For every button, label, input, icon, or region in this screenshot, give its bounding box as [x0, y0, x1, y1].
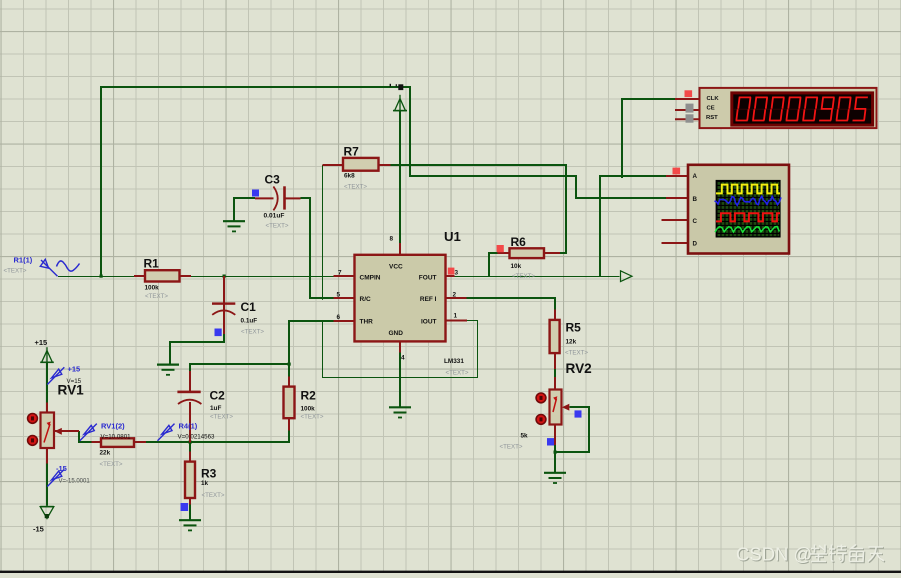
potentiometer RV2 [550, 390, 562, 425]
svg-text:FOUT: FOUT [419, 274, 437, 281]
indicator square at RV2 bottom [547, 438, 554, 445]
wire R7 left vertical [322, 165, 324, 300]
counter CLK stub [675, 98, 700, 100]
svg-text:B: B [693, 196, 698, 203]
U1 pin 4 stub [399, 342, 401, 353]
bottom black bar [0, 571, 901, 573]
svg-text:0.1uF: 0.1uF [241, 318, 258, 325]
svg-text:<TEXT>: <TEXT> [266, 223, 289, 230]
svg-text:100k: 100k [301, 406, 316, 413]
R7 right lead [378, 164, 391, 166]
svg-text:A: A [693, 173, 698, 180]
svg-text:<TEXT>: <TEXT> [301, 414, 324, 421]
svg-text:1k: 1k [201, 480, 209, 487]
counter digits 00000905 [736, 97, 750, 120]
svg-text:V=-15.0001: V=-15.0001 [59, 479, 91, 485]
svg-text:V=15: V=15 [67, 378, 82, 385]
resistor R3 [185, 462, 195, 498]
R4 right lead [134, 441, 147, 443]
indicator square at C3 [252, 190, 259, 197]
svg-text:D: D [693, 241, 698, 248]
wire U1 GND pin to ground [399, 353, 401, 408]
svg-text:RST: RST [706, 115, 718, 121]
svg-text:<TEXT>: <TEXT> [446, 370, 469, 377]
svg-text:<TEXT>: <TEXT> [145, 293, 168, 300]
RV2 terminal indicator circles [536, 393, 546, 403]
R2 bottom lead [288, 418, 290, 431]
C2 bottom lead [189, 402, 191, 443]
svg-text:R2: R2 [301, 389, 317, 403]
node junction C1 top [223, 275, 226, 278]
output arrow terminal (FOUT) [621, 271, 633, 282]
R1 left lead [134, 275, 146, 277]
svg-text:<TEXT>: <TEXT> [210, 414, 233, 421]
svg-text:<TEXT>: <TEXT> [565, 350, 588, 357]
power +15 terminal above RV1 [40, 347, 54, 362]
voltage probe R4(1) [158, 424, 175, 441]
scope A stub [666, 175, 688, 177]
resistor R2 [284, 387, 295, 419]
svg-text:6: 6 [337, 314, 341, 321]
svg-text:C: C [693, 218, 698, 225]
svg-text:R/C: R/C [360, 296, 372, 303]
wire R6 left down to FOUT [489, 253, 498, 276]
svg-text:<TEXT>: <TEXT> [500, 444, 523, 451]
wire R7 right to R6 right (VCC net) [391, 165, 567, 253]
wire C1 bottom to ground [170, 334, 224, 364]
wire counter CLK branch [622, 99, 675, 178]
R6 left lead [498, 252, 511, 254]
counter CE stub [675, 109, 700, 111]
node junction R1 input [100, 275, 103, 278]
svg-text:5: 5 [337, 291, 341, 298]
C2 top lead [189, 371, 191, 391]
svg-text:<TEXT>: <TEXT> [4, 268, 27, 275]
wire R3 bottom to ground [189, 504, 191, 520]
R5 bottom lead [554, 353, 556, 391]
svg-text:R3: R3 [201, 467, 217, 481]
indicator square at R3 bottom [181, 503, 189, 511]
resistor R6 [510, 248, 545, 258]
svg-text:-15: -15 [56, 464, 67, 473]
wire C3/R7 to U1 pin5 [301, 198, 334, 298]
voltage probe R1(1) with source squiggle [40, 259, 57, 276]
svg-text:<TEXT>: <TEXT> [344, 184, 367, 191]
ground for C1 [157, 365, 179, 375]
indicator square at C1 bottom [215, 329, 222, 337]
svg-text:<TEXT>: <TEXT> [202, 492, 225, 499]
power -15 terminal below RV1 [40, 507, 54, 519]
svg-text:LM331: LM331 [444, 358, 464, 365]
svg-text:R7: R7 [344, 145, 360, 159]
svg-text:6k8: 6k8 [344, 173, 355, 180]
RV1 top lead [46, 403, 48, 414]
svg-text:THR: THR [360, 319, 374, 326]
svg-text:<TEXT>: <TEXT> [241, 329, 264, 336]
svg-text:<TEXT>: <TEXT> [512, 273, 535, 280]
R4 left lead [92, 441, 102, 443]
watermark CSDN [736, 543, 885, 565]
wire RV1 top to +15 [46, 363, 48, 403]
svg-text:C2: C2 [210, 389, 226, 403]
wire input net (probe R1(1) / R1 / scope B) [58, 276, 334, 278]
R7 left lead [323, 164, 344, 166]
svg-text:VCC: VCC [389, 264, 403, 271]
voltage probe +15 at RV1 top [47, 367, 64, 384]
scope B stub [666, 197, 688, 199]
wire node X: RV1 wiper - R4 - C2 - R3 - R2 [79, 431, 92, 442]
U1 pin 3 stub [446, 275, 455, 277]
R6 right lead [544, 252, 561, 254]
resistor R1 [145, 270, 180, 281]
svg-text:R4(1): R4(1) [179, 422, 198, 431]
svg-text:100k: 100k [145, 285, 160, 292]
svg-text:22k: 22k [100, 450, 111, 457]
node junction node X [189, 441, 192, 444]
RV1 terminal indicator circles [28, 414, 38, 424]
resistor R7 [343, 158, 379, 171]
svg-text:+15: +15 [35, 338, 48, 347]
scope C stub [662, 219, 689, 221]
svg-text:CSDN @: CSDN @ [736, 543, 812, 564]
svg-text:12k: 12k [566, 339, 577, 346]
svg-text:3: 3 [455, 270, 459, 277]
svg-text:2: 2 [453, 291, 457, 298]
svg-text:1uF: 1uF [210, 405, 221, 412]
svg-text:R5: R5 [566, 321, 582, 335]
wire RV1 bottom to -15 [46, 463, 48, 506]
svg-text:C1: C1 [241, 300, 257, 314]
C1 top lead [223, 276, 225, 303]
wire U1 pin2 to R5 [467, 298, 556, 310]
R3 top lead [189, 452, 191, 463]
RV1 wiper lead [54, 430, 79, 432]
RV2 bottom lead [554, 424, 556, 445]
wire THR net: pin6 to C2 top and R2 top [190, 321, 334, 371]
U1 pin 7 stub [334, 275, 355, 277]
counter RST stub [675, 118, 700, 120]
indicator square at R6 left [497, 245, 504, 252]
indicator square at U1 pin 3 [448, 268, 455, 275]
wire RV2 wiper loop [555, 407, 589, 452]
voltage probe -15 at RV1 bottom [47, 469, 64, 486]
svg-text:8: 8 [390, 236, 394, 243]
ground for R3 [179, 520, 201, 530]
wire RV2 bottom to ground [554, 445, 556, 473]
scope traces [715, 185, 782, 233]
U1 pin 8 stub [399, 243, 401, 255]
oscilloscope instrument [688, 165, 789, 254]
R3 bottom lead [189, 498, 191, 505]
svg-text:R6: R6 [511, 235, 527, 249]
svg-text:R1: R1 [144, 257, 160, 271]
svg-text:CMPIN: CMPIN [360, 274, 381, 281]
capacitor C3 [283, 186, 286, 209]
svg-text:0.01uF: 0.01uF [264, 213, 285, 220]
svg-text:IOUT: IOUT [421, 319, 437, 326]
C3 left lead [255, 197, 274, 199]
wire IOUT loop to ground [323, 321, 478, 378]
svg-text:10k: 10k [511, 263, 522, 270]
pin numbers [337, 236, 459, 362]
C1 bottom lead [223, 304, 225, 334]
C3 right lead [285, 197, 301, 199]
label +15 on wire [398, 84, 403, 90]
U1 pin 1 stub [446, 320, 468, 322]
scope D stub [662, 242, 689, 244]
wire C3 left to ground [234, 198, 255, 220]
U1 pin 6 stub [334, 320, 355, 322]
svg-text:RV1(2): RV1(2) [101, 422, 125, 431]
R5 top lead [554, 310, 556, 321]
svg-text:REF I: REF I [420, 296, 437, 303]
power +15 terminal (VCC arrow near U1) [393, 95, 407, 111]
svg-text:GND: GND [389, 330, 404, 337]
capacitor C2 [177, 391, 200, 394]
wire VCC vertical to U1 pin 8 [399, 111, 401, 244]
ground for C3 [223, 221, 245, 231]
svg-text:5k: 5k [521, 433, 529, 440]
voltage probe RV1(2) [80, 424, 97, 441]
svg-text:U1: U1 [444, 229, 461, 244]
resistor R5 [550, 320, 560, 353]
indicator squares at counter pins [685, 90, 693, 97]
svg-text:V=10.0801: V=10.0801 [101, 433, 132, 440]
ground for U1 GND pin [389, 407, 411, 417]
op-amp / VFC chip U1 LM331 [355, 255, 446, 342]
U1 pin 2 stub [446, 297, 467, 299]
svg-text:<TEXT>: <TEXT> [100, 461, 123, 468]
svg-text:CLK: CLK [707, 96, 720, 102]
svg-text:R1(1): R1(1) [14, 256, 33, 265]
wire splice R5-RV2 [554, 369, 556, 377]
indicator square at RV2 wiper [575, 410, 582, 417]
svg-text:7: 7 [338, 270, 342, 277]
svg-text:C3: C3 [265, 173, 281, 187]
svg-text:V=0.0214563: V=0.0214563 [178, 433, 216, 440]
indicator square at scope A [673, 168, 681, 175]
svg-text:4: 4 [401, 355, 405, 362]
svg-text:-15: -15 [33, 525, 44, 534]
ground for RV2 [544, 473, 566, 483]
R1 right lead [179, 275, 191, 277]
potentiometer RV1 [41, 413, 55, 449]
resistor R4 [101, 438, 134, 447]
U1 pin 5 stub [334, 297, 355, 299]
svg-text:CE: CE [707, 106, 715, 112]
svg-text:+15: +15 [68, 365, 81, 374]
svg-text:RV2: RV2 [566, 361, 593, 376]
R2 top lead [288, 377, 290, 388]
RV1 bottom lead [46, 448, 48, 464]
node junction RV2 bottom [554, 451, 557, 454]
capacitor C1 [212, 302, 235, 304]
frequency counter instrument [700, 88, 877, 128]
svg-text:1: 1 [454, 313, 458, 320]
wire FOUT net [454, 276, 620, 278]
node junction THR/R2 [288, 363, 291, 366]
